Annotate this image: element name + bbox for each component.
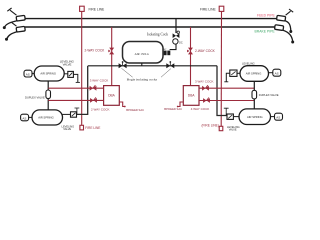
DBA box left [104, 86, 120, 106]
svg-text:FIRE LINE: FIRE LINE [89, 8, 106, 12]
node: fire line terminal bottom-left [80, 125, 84, 130]
wire leveling valve vent [73, 74, 77, 82]
svg-text:Isolating Cock: Isolating Cock [147, 33, 168, 37]
air spring upper-left [34, 66, 64, 81]
pointer line to right cock [161, 69, 171, 78]
wire leveling valve to air spring lower-right [234, 116, 239, 118]
svg-text:FEED PIPE: FEED PIPE [257, 13, 275, 17]
wire: 2-way cock left drop from brake pipe to DBA [111, 27, 113, 86]
AS box lower-right [275, 113, 283, 120]
svg-text:2-WAY COCK: 2-WAY COCK [195, 49, 216, 53]
DBA box right [183, 86, 199, 106]
wire: feed pipe line [25, 18, 277, 20]
leveling valve upper-right [230, 70, 237, 76]
wire: upper red line right (DBA to duplex) [199, 87, 254, 89]
svg-text:VALVE: VALVE [229, 128, 237, 132]
valve: 4 way cock right [203, 98, 210, 103]
air spring lower-left [32, 110, 63, 125]
svg-text:FIRE LINE: FIRE LINE [200, 8, 217, 12]
svg-text:DUPLEX VALVE: DUPLEX VALVE [25, 95, 45, 99]
svg-text:AS: AS [22, 116, 26, 120]
wire: BP/FEED SAC stub left [119, 102, 124, 107]
wire: right bogie drop to leveling valve lower-right [217, 66, 227, 116]
hose coupling top-left B [5, 22, 25, 40]
svg-text:AIR SPRING: AIR SPRING [246, 72, 262, 76]
pointer line to left cock [121, 68, 132, 77]
svg-text:3 WAY COCK: 3 WAY COCK [195, 79, 213, 83]
wire: bogie distribution line [88, 65, 217, 67]
svg-text:3 WAY COCK: 3 WAY COCK [90, 79, 108, 83]
duplex check valve right [252, 90, 257, 99]
leveling valve upper-left [68, 71, 74, 77]
valve: isolating cock [173, 31, 180, 38]
node: fire line terminal bottom-right [219, 126, 223, 130]
wire: 2-way cock right drop from brake pipe to DBA [190, 27, 192, 86]
wire air spring to AS lower-right [271, 116, 275, 118]
svg-text:AIR 150Lts: AIR 150Lts [135, 52, 150, 56]
valve: 3 way cock right [202, 85, 209, 90]
AS box upper-left [24, 70, 32, 77]
wire AS to lower air spring [29, 116, 32, 118]
wire leveling valve to air spring upper-right [237, 72, 240, 74]
valve: 2-way cock right [187, 48, 193, 55]
wire: brake pipe line [25, 26, 275, 28]
svg-text:DUPLEX VALVE: DUPLEX VALVE [259, 93, 279, 97]
leveling valve lower-left [71, 112, 77, 117]
svg-text:AS: AS [26, 73, 30, 77]
valve: 4 way cock left [90, 97, 97, 102]
wire: isolating cock drop from feed pipe [175, 19, 177, 33]
svg-text:AIR SPRING: AIR SPRING [40, 72, 56, 76]
svg-text:(FIRE LINE): (FIRE LINE) [202, 124, 219, 128]
hose coupling top-left A [3, 8, 25, 29]
wire: duplex drop right [253, 81, 255, 109]
wire: check valve to filter [170, 44, 176, 50]
wire: BP/FEED SAC stub right [178, 102, 183, 107]
wire: fire line left vertical [81, 12, 83, 126]
air spring upper-right [240, 66, 269, 82]
valve: bogie isolating cock right [166, 61, 174, 68]
valve: bogie isolating cock left [119, 61, 127, 68]
svg-text:DBA: DBA [108, 93, 115, 97]
hose coupling top-right A [277, 9, 294, 33]
svg-text:AIR SPRING: AIR SPRING [247, 115, 263, 119]
svg-text:2 WAY COCK: 2 WAY COCK [91, 108, 109, 112]
svg-text:OC: OC [179, 41, 183, 44]
wire leveling valve vent upper-right [226, 73, 230, 81]
wire: lower red line right [199, 100, 254, 102]
svg-text:BRAKE PIPE: BRAKE PIPE [255, 29, 276, 33]
main air reservoir [123, 42, 164, 64]
wire air spring to leveling valve [64, 73, 68, 75]
duplex check valve left [46, 90, 51, 99]
check valve circle [173, 39, 178, 44]
wire: lower red line left [48, 99, 103, 101]
svg-text:2-WAY COCK: 2-WAY COCK [85, 48, 106, 52]
wire: duplex drop left [47, 81, 49, 110]
svg-text:DBA: DBA [188, 93, 195, 97]
svg-text:AS: AS [276, 116, 280, 120]
svg-text:Bogie isolating cocks: Bogie isolating cocks [127, 78, 158, 82]
AS box lower-left [21, 114, 29, 121]
hose coupling top-right B [275, 25, 295, 44]
svg-text:4 WAY COCK: 4 WAY COCK [191, 107, 209, 111]
node: fire line terminal top-left [80, 6, 85, 11]
AS box upper-right [273, 69, 281, 76]
svg-text:BP/FEED SAC: BP/FEED SAC [164, 107, 182, 111]
air spring lower-right [239, 109, 271, 125]
svg-text:FIRE LINE: FIRE LINE [85, 126, 100, 130]
valve: 3 way cock left [90, 85, 97, 90]
svg-text:BP/FEED SAC: BP/FEED SAC [126, 108, 144, 112]
svg-text:VALVE: VALVE [63, 63, 72, 67]
svg-text:AIR SPRING: AIR SPRING [38, 116, 54, 120]
wire air spring to leveling valve lower-left [63, 113, 71, 115]
valve: 2-way cock left [108, 48, 114, 55]
wire: left bogie drop to leveling valve lower-left [77, 66, 88, 115]
wire: upper red line left (duplex to DBA) [48, 87, 103, 89]
node: fire line terminal top-right [219, 6, 224, 11]
wire: fire line right vertical [220, 12, 222, 127]
svg-text:AS: AS [275, 72, 279, 76]
wire AS to air spring [32, 73, 34, 75]
wire air spring to AS upper-right [269, 72, 273, 74]
leveling valve lower-right [227, 114, 233, 119]
svg-text:VALVE: VALVE [63, 127, 71, 131]
wire: reservoir drop to bogie line [141, 63, 143, 66]
